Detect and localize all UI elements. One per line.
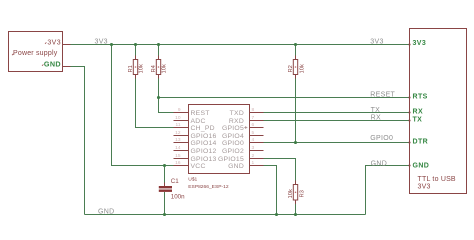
- svg-text:1: 1: [252, 160, 255, 166]
- power supply module: [9, 32, 71, 72]
- svg-text:10k: 10k: [299, 64, 305, 73]
- svg-text:GPIO5: GPIO5: [222, 125, 244, 132]
- svg-text:GPIO13: GPIO13: [191, 156, 217, 163]
- wire RESET node down to REST pin 9: [159, 98, 174, 113]
- svg-text:GND: GND: [371, 161, 387, 168]
- IC U$1 ESP8266_ESP-12: [174, 105, 264, 191]
- node 3V3/R4 junction: [157, 43, 160, 46]
- svg-text:ESP8266_ESP-12: ESP8266_ESP-12: [188, 184, 229, 190]
- node VCC/C1 junction: [163, 164, 166, 167]
- pin 7 RXD: [249, 120, 264, 122]
- pin 6 GPIO5: [249, 127, 264, 129]
- svg-text:10k: 10k: [288, 189, 294, 198]
- svg-text:VCC: VCC: [191, 163, 206, 170]
- svg-text:3V3: 3V3: [370, 39, 383, 46]
- pin 13 GPIO14: [174, 142, 190, 144]
- resistor R3: [288, 181, 305, 205]
- net label 3V3 (left): [95, 39, 108, 46]
- svg-text:RESET: RESET: [370, 92, 395, 99]
- svg-text:GPIO14: GPIO14: [191, 140, 217, 147]
- svg-text:GPIO4: GPIO4: [222, 133, 244, 140]
- svg-text:9: 9: [178, 107, 181, 113]
- node 3V3/R1 junction: [134, 43, 137, 46]
- resistor R4: [151, 56, 167, 79]
- svg-text:100n: 100n: [171, 193, 185, 200]
- svg-text:10k: 10k: [162, 64, 168, 73]
- svg-text:RX: RX: [371, 115, 381, 122]
- node RESET/R4 junction: [157, 96, 160, 99]
- svg-text:8: 8: [252, 107, 255, 113]
- svg-text:GPIO15: GPIO15: [218, 156, 244, 163]
- pin 9 REST: [174, 112, 190, 114]
- wire R2 column: [295, 45, 297, 143]
- pin names left column: [191, 110, 217, 170]
- wire GPIO0 net: [264, 142, 410, 144]
- wire GPIO15 pin 2 to R3: [264, 159, 296, 215]
- pin 10 ADC: [174, 120, 190, 122]
- svg-text:GND: GND: [228, 163, 244, 170]
- svg-text:TTL to USB: TTL to USB: [418, 176, 456, 183]
- svg-text:GPIO0: GPIO0: [370, 135, 393, 142]
- node 3V3/R2 junction: [294, 43, 297, 46]
- svg-text:3V3: 3V3: [47, 39, 61, 46]
- svg-text:6: 6: [252, 122, 255, 128]
- svg-text:7: 7: [252, 115, 255, 121]
- svg-text:TX: TX: [371, 107, 381, 114]
- net label GPIO0: [370, 135, 393, 142]
- svg-text:GPIO16: GPIO16: [191, 133, 217, 140]
- svg-text:5: 5: [252, 130, 255, 136]
- svg-text:U$1: U$1: [188, 177, 197, 183]
- svg-text:3V3: 3V3: [413, 40, 427, 47]
- svg-text:3: 3: [252, 145, 255, 151]
- net label 3V3 (right): [370, 39, 383, 46]
- svg-text:DTR: DTR: [413, 138, 429, 145]
- pin 3 GPIO2: [249, 150, 264, 152]
- svg-text:GND: GND: [413, 163, 430, 170]
- node 3V3/feed junction: [110, 43, 113, 46]
- origin cross: [244, 126, 247, 129]
- pin numbers right: [252, 107, 255, 166]
- svg-text:R3: R3: [299, 190, 305, 197]
- pin 15 GPIO13: [174, 158, 190, 160]
- TTL to USB module: [409, 29, 467, 194]
- pin names right column: [218, 110, 244, 170]
- wire TX net: [264, 112, 410, 114]
- svg-text:C1: C1: [171, 178, 179, 185]
- net label GND (right): [371, 161, 387, 168]
- svg-text:GPIO2: GPIO2: [222, 148, 244, 155]
- pin 1 GND: [249, 165, 264, 167]
- node GPIO0/R2 junction: [294, 141, 297, 144]
- svg-text:GPIO0: GPIO0: [222, 140, 244, 147]
- svg-text:TX: TX: [413, 117, 423, 124]
- wire GND pin 1 riser: [264, 166, 277, 215]
- svg-text:GPIO12: GPIO12: [191, 148, 217, 155]
- svg-text:4: 4: [252, 137, 255, 143]
- svg-text:GND: GND: [98, 208, 114, 215]
- svg-text:CH_PD: CH_PD: [191, 125, 215, 132]
- svg-text:TXD: TXD: [230, 110, 244, 117]
- capacitor C1: [159, 178, 185, 201]
- svg-text:3V3: 3V3: [418, 184, 431, 191]
- svg-text:16: 16: [175, 160, 181, 166]
- svg-text:Power supply: Power supply: [13, 50, 58, 57]
- net label RESET: [370, 92, 395, 99]
- wire 3V3 rail: [71, 44, 410, 46]
- svg-text:3V3: 3V3: [95, 39, 108, 46]
- wire R1 to CH_PD pin 11: [136, 45, 174, 128]
- wire 3V3 feed down to VCC: [112, 45, 174, 166]
- svg-text:R1: R1: [128, 65, 134, 72]
- pin 5 GPIO4: [249, 135, 264, 137]
- pin 11 CH_PD: [174, 127, 190, 129]
- svg-text:2: 2: [252, 153, 255, 159]
- node GND/pin1 junction: [275, 213, 278, 216]
- wire R4 bottom to RESET node: [158, 75, 160, 98]
- pin numbers left: [175, 107, 181, 166]
- wire GND rail: [85, 214, 366, 216]
- svg-text:REST: REST: [191, 110, 210, 117]
- wire RX net: [264, 120, 410, 122]
- pin 8 TXD: [249, 112, 264, 114]
- svg-text:11: 11: [176, 122, 181, 128]
- wire R4 top: [158, 45, 160, 60]
- svg-text:ADC: ADC: [191, 118, 206, 125]
- svg-text:15: 15: [175, 153, 181, 159]
- svg-text:10k: 10k: [139, 64, 145, 73]
- svg-text:R2: R2: [288, 65, 294, 72]
- net label GND (bottom left): [98, 208, 114, 215]
- wire C1 column: [164, 166, 166, 215]
- resistor R2: [288, 56, 305, 79]
- wire GND riser to TTL box: [366, 166, 410, 215]
- pin 16 VCC: [174, 165, 190, 167]
- svg-text:GND: GND: [44, 60, 61, 69]
- svg-text:R4: R4: [151, 64, 157, 72]
- net label TX: [371, 107, 381, 114]
- svg-text:13: 13: [175, 137, 181, 143]
- pin 2 GPIO15: [249, 158, 264, 160]
- net label RX: [371, 115, 381, 122]
- svg-text:10: 10: [175, 115, 181, 121]
- node GND/R3 junction: [294, 213, 297, 216]
- node GND/C1 junction: [163, 213, 166, 216]
- svg-text:14: 14: [175, 145, 181, 151]
- pin 12 GPIO16: [174, 135, 190, 137]
- pin 4 GPIO0: [249, 142, 264, 144]
- wire power supply GND down: [71, 67, 85, 215]
- svg-text:RX: RX: [413, 109, 424, 116]
- resistor R1: [128, 56, 144, 79]
- svg-text:12: 12: [175, 130, 181, 136]
- svg-text:RTS: RTS: [413, 93, 428, 100]
- svg-text:RXD: RXD: [229, 118, 244, 125]
- wire RESET net: [159, 97, 410, 99]
- pin 14 GPIO12: [174, 150, 190, 152]
